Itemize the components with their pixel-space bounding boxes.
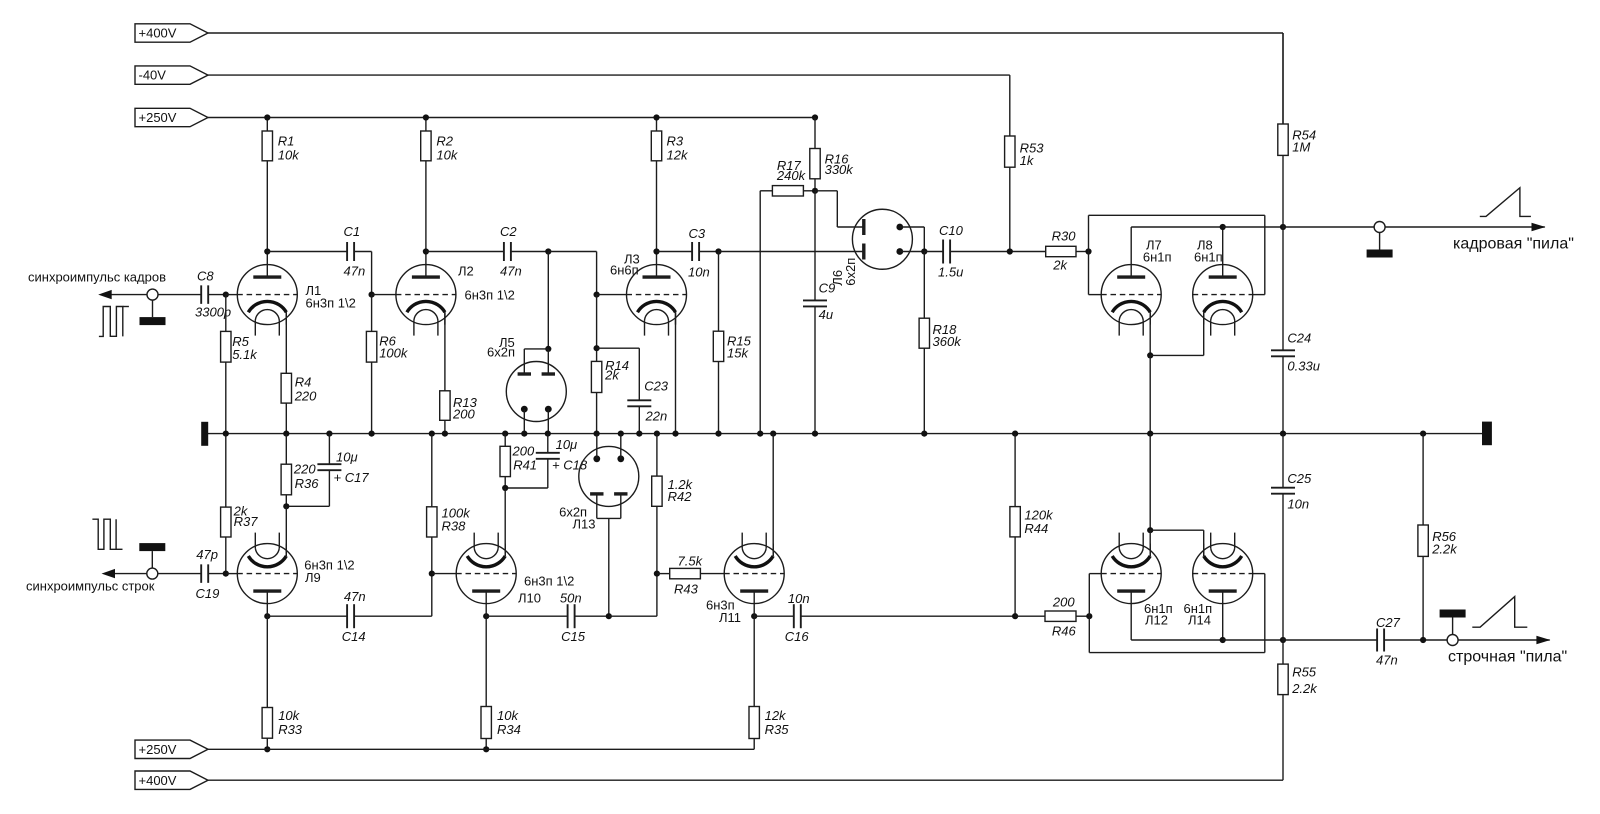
svg-text:Л11: Л11 <box>719 610 741 625</box>
label R1 value <box>278 148 300 163</box>
tube L8 triode <box>1193 265 1253 336</box>
resistor R56 <box>1418 434 1428 640</box>
node L10 grid <box>429 571 435 577</box>
label R33 value <box>278 708 300 723</box>
svg-text:синхроимпульс строк: синхроимпульс строк <box>26 579 155 594</box>
svg-text:12k: 12k <box>667 148 689 163</box>
label R5 value <box>232 347 258 362</box>
node L5 anodes <box>545 346 551 352</box>
label L9 type <box>304 558 354 573</box>
node L14 plate <box>1220 637 1226 643</box>
label R17 <box>777 158 802 173</box>
label C1 value <box>344 264 366 279</box>
capacitor C17 <box>286 434 341 507</box>
wire tap to R43 riser <box>609 574 657 617</box>
wire L8 plate up <box>1222 227 1224 265</box>
svg-text:строчная "пила": строчная "пила" <box>1448 649 1567 666</box>
svg-text:C15: C15 <box>561 629 586 644</box>
label L13 <box>573 516 596 531</box>
svg-text:6н3п 1\2: 6н3п 1\2 <box>465 288 515 303</box>
wire C23 to bus <box>638 406 640 433</box>
resistor R3 <box>651 118 661 265</box>
resistor R38 <box>427 434 437 574</box>
svg-text:синхроимпульс кадров: синхроимпульс кадров <box>28 270 166 285</box>
label R54 value <box>1292 140 1310 155</box>
wire plate L2 to C2 <box>426 251 504 253</box>
label R35 <box>765 722 790 737</box>
label R2 <box>436 134 453 149</box>
node L12 L14 cathodes <box>1147 527 1153 533</box>
svg-text:220: 220 <box>293 461 316 476</box>
waveform frame sawtooth <box>1480 188 1531 217</box>
label R30 value <box>1052 258 1068 273</box>
label C27 value <box>1376 653 1398 668</box>
label R30 <box>1052 229 1077 244</box>
wire junction to L6 upper anode <box>815 191 864 227</box>
ground bus left terminator <box>201 422 208 446</box>
label L2 <box>458 264 474 279</box>
node L3 grid <box>594 292 600 298</box>
svg-text:Л2: Л2 <box>458 264 474 279</box>
node bus junction <box>369 431 375 437</box>
svg-text:R38: R38 <box>442 519 467 534</box>
label R6 <box>379 334 396 349</box>
label C18 value <box>556 437 578 452</box>
label L5 <box>499 335 515 350</box>
node R30 output <box>1085 248 1091 254</box>
svg-text:R36: R36 <box>295 476 320 491</box>
node bus junction <box>545 431 551 437</box>
label C19 <box>196 586 220 601</box>
node bus junction <box>1280 431 1286 437</box>
wire C19 to grid node <box>208 573 226 575</box>
arrow frame output <box>1532 223 1546 231</box>
wire L5 right cathode to bus <box>547 409 549 434</box>
node bus junction <box>636 431 642 437</box>
svg-text:+ C18: + C18 <box>552 458 588 473</box>
wire C3 node to L6 anode <box>719 251 864 253</box>
arrow frame sync input <box>98 290 112 299</box>
capacitor C15 <box>568 604 575 628</box>
svg-text:6н1п: 6н1п <box>1194 250 1223 265</box>
label R1 <box>278 134 295 149</box>
svg-text:6н1п: 6н1п <box>1143 250 1172 265</box>
label L7 type <box>1143 250 1172 265</box>
label R53 value <box>1020 153 1035 168</box>
svg-text:4u: 4u <box>819 307 833 322</box>
svg-text:Л9: Л9 <box>305 570 321 585</box>
svg-text:15k: 15k <box>727 346 749 361</box>
label R43 value <box>678 553 704 568</box>
label L6 <box>830 270 845 286</box>
svg-text:-40V: -40V <box>139 68 167 83</box>
wire L12 L14 cathodes to bus <box>1149 434 1151 531</box>
label C16 <box>785 629 810 644</box>
node bus junction <box>326 431 332 437</box>
resistor R54 <box>1278 33 1288 227</box>
resistor R4 <box>281 312 291 433</box>
label R38 value <box>442 506 472 521</box>
node bus junction <box>283 431 289 437</box>
label C3 value <box>688 265 710 280</box>
ground bus <box>205 433 1487 435</box>
tube L12 triode <box>1101 533 1161 604</box>
label L3 type <box>610 263 639 278</box>
svg-text:R43: R43 <box>674 582 699 597</box>
capacitor C1 <box>347 242 354 261</box>
wire grid jumper top <box>1089 214 1265 216</box>
arrow line output <box>1536 636 1550 644</box>
svg-text:C16: C16 <box>785 629 810 644</box>
wire R30 to grids <box>1076 251 1089 253</box>
node bus junction <box>618 431 624 437</box>
wire C10 to R30 <box>950 251 1046 253</box>
svg-text:R37: R37 <box>234 514 259 529</box>
wire grid to L8 <box>1253 294 1265 296</box>
svg-text:360k: 360k <box>933 334 963 349</box>
terminal line output <box>1440 610 1466 646</box>
svg-text:200: 200 <box>452 406 475 421</box>
node R33 at +250V <box>264 746 270 752</box>
wire L12 plate down <box>1131 604 1223 640</box>
svg-text:2.2k: 2.2k <box>1291 681 1318 696</box>
resistor R42 <box>652 434 662 574</box>
capacitor C3 <box>692 242 699 261</box>
capacitor C14 <box>347 604 354 628</box>
svg-text:1M: 1M <box>1292 140 1310 155</box>
node R46 output <box>1086 613 1092 619</box>
wire R17 left to bus <box>760 191 772 434</box>
label R42 <box>668 489 693 504</box>
node C3 output <box>715 248 721 254</box>
capacitor C8 <box>201 285 208 304</box>
node L1 grid <box>223 292 229 298</box>
label R42 value <box>668 477 694 492</box>
wire L7 plate up <box>1131 227 1223 265</box>
power flag +400V bottom <box>135 771 208 789</box>
node bus junction <box>429 431 435 437</box>
wire +250V rail <box>208 117 815 119</box>
svg-text:6х2п: 6х2п <box>487 345 515 360</box>
label C14 <box>342 629 366 644</box>
wire C3 to node <box>699 251 719 253</box>
svg-text:12k: 12k <box>765 708 787 723</box>
label L13 type <box>559 504 587 519</box>
svg-text:C2: C2 <box>500 224 517 239</box>
label C23 value <box>645 409 668 424</box>
node L1 plate <box>264 248 270 254</box>
node R34 at +250V <box>483 746 489 752</box>
svg-text:R41: R41 <box>513 458 537 473</box>
wire plate L11 to C16 <box>754 615 794 617</box>
wire grid node to L3 <box>597 294 627 296</box>
svg-text:47n: 47n <box>500 264 522 279</box>
svg-text:R42: R42 <box>668 489 693 504</box>
node L9 plate <box>264 613 270 619</box>
svg-text:47p: 47p <box>196 547 218 562</box>
label R53 <box>1020 141 1045 156</box>
label C2 <box>500 224 517 239</box>
label C17 value <box>336 450 358 465</box>
wire grid to L14 <box>1253 573 1265 575</box>
svg-text:Л14: Л14 <box>1188 613 1211 628</box>
label R3 <box>667 134 684 149</box>
node R3 at +250V <box>653 114 659 120</box>
resistor R1 <box>262 118 272 265</box>
label L3 <box>624 252 640 267</box>
capacitor C10 <box>943 240 950 264</box>
label C15 value <box>560 591 582 606</box>
wire input line bottom <box>115 573 201 575</box>
wire L14 grid riser <box>1264 574 1266 653</box>
node bus junction <box>223 431 229 437</box>
svg-text:+400V: +400V <box>139 26 177 41</box>
svg-text:10μ: 10μ <box>556 437 578 452</box>
wire +400V rail <box>208 33 1283 124</box>
label L10 type <box>524 574 574 589</box>
label R46 value <box>1052 595 1075 610</box>
wire C14 to L10 grid <box>354 574 432 617</box>
label C9 <box>819 281 836 296</box>
label R18 value <box>933 334 963 349</box>
wire C1 to L2 grid <box>354 252 372 295</box>
label L1 <box>306 283 322 298</box>
wire plates to line output node <box>1223 639 1283 641</box>
resistor R35 <box>749 604 759 750</box>
arrow line sync input <box>102 569 116 578</box>
resistor R36 <box>281 434 291 507</box>
node L13 anode tap <box>606 613 612 619</box>
node bus junction <box>921 431 927 437</box>
svg-text:R33: R33 <box>278 722 303 737</box>
wire C27 to terminal <box>1384 639 1550 641</box>
label R44 <box>1024 521 1048 536</box>
svg-text:220: 220 <box>294 388 317 403</box>
label C18 <box>552 458 588 473</box>
svg-text:кадровая "пила": кадровая "пила" <box>1453 236 1574 253</box>
label L9 <box>305 570 321 585</box>
node L6 output <box>921 248 927 254</box>
node bus junction <box>654 431 660 437</box>
node L7 L8 cathodes <box>1147 352 1153 358</box>
wire +250V bottom rail <box>208 748 754 750</box>
resistor R55 <box>1278 640 1288 780</box>
label R41 value <box>512 444 535 459</box>
resistor R16 <box>810 118 820 191</box>
svg-text:2k: 2k <box>604 368 620 383</box>
label C27 <box>1376 615 1401 630</box>
label L12 <box>1145 613 1168 628</box>
wire grid node to L10 <box>432 573 456 575</box>
svg-text:10n: 10n <box>788 591 810 606</box>
label sync input frames <box>28 270 166 285</box>
node R14 C23 tap <box>594 345 600 351</box>
resistor R2 <box>421 118 431 265</box>
label R6 value <box>379 346 409 361</box>
resistor R30 <box>1046 246 1076 256</box>
svg-text:200: 200 <box>1052 595 1075 610</box>
svg-text:47n: 47n <box>344 264 366 279</box>
label line output <box>1448 649 1567 666</box>
svg-text:C1: C1 <box>344 224 361 239</box>
wire grid node to L9 <box>226 573 238 575</box>
svg-text:R3: R3 <box>667 134 684 149</box>
wire L14 plate down <box>1222 604 1224 640</box>
wire L6 to C10 <box>924 251 943 253</box>
label C8 <box>197 269 214 284</box>
tube L14 triode <box>1193 533 1253 604</box>
label R38 <box>442 519 467 534</box>
svg-text:47n: 47n <box>344 589 366 604</box>
wire node down to L5 anodes <box>547 252 549 349</box>
label R15 <box>727 334 752 349</box>
label R15 value <box>727 346 749 361</box>
resistor R53 <box>1005 136 1015 252</box>
node L9 grid <box>223 571 229 577</box>
node +250V rail end <box>812 114 818 120</box>
tube L7 triode <box>1101 265 1161 336</box>
power flag -40V <box>135 66 208 84</box>
wire input line <box>111 294 201 296</box>
svg-text:+250V: +250V <box>139 742 177 757</box>
wire grid to L12 <box>1089 573 1101 575</box>
resistor R33 <box>262 604 272 750</box>
label C15 <box>561 629 586 644</box>
svg-text:C3: C3 <box>689 226 706 241</box>
label L8 <box>1197 238 1213 253</box>
node R53 output <box>1007 248 1013 254</box>
label R16 <box>825 152 850 167</box>
wire C2 to node <box>511 251 549 253</box>
capacitor C24 <box>1271 227 1295 434</box>
wire +400V bottom rail <box>208 779 1283 781</box>
node R44 R46 <box>1012 613 1018 619</box>
wire plate L9 to C14 <box>267 615 347 617</box>
node L10 cathode <box>502 485 508 491</box>
svg-text:+400V: +400V <box>139 773 177 788</box>
capacitor C27 <box>1377 629 1384 652</box>
svg-text:C10: C10 <box>939 223 964 238</box>
ground bus right terminator <box>1482 422 1492 446</box>
node bus junction <box>715 431 721 437</box>
label L12 type <box>1144 601 1173 616</box>
node bus junction <box>757 431 763 437</box>
node bus junction <box>1012 431 1018 437</box>
wire plate L1 to C1 <box>267 251 347 253</box>
svg-text:6н6п: 6н6п <box>610 263 639 278</box>
label L7 <box>1146 238 1162 253</box>
label R18 <box>933 322 958 337</box>
node R2 at +250V <box>423 114 429 120</box>
wire L6 lower cathode <box>900 251 925 253</box>
wire L13 cathodes to bus <box>597 434 621 459</box>
wire L5 right anode <box>547 349 549 374</box>
wire cathode jumper <box>1150 312 1204 355</box>
tube L11 triode <box>724 533 784 604</box>
resistor R44 <box>1010 434 1020 617</box>
node R1 at +250V <box>264 114 270 120</box>
label C3 <box>689 226 706 241</box>
power flag +250V bottom <box>135 740 208 758</box>
svg-text:C25: C25 <box>1287 471 1312 486</box>
tube L13 double diode <box>579 446 639 506</box>
wire L12 grid riser <box>1088 574 1090 653</box>
label R16 value <box>825 162 855 177</box>
label R13 <box>453 395 478 410</box>
node bus junction <box>1147 431 1153 437</box>
wire L8 grid riser <box>1264 215 1266 294</box>
node L2 plate <box>423 248 429 254</box>
label R2 value <box>436 148 458 163</box>
node L11 grid R42 R43 <box>654 571 660 577</box>
label L14 type <box>1184 601 1213 616</box>
svg-text:1k: 1k <box>1020 153 1035 168</box>
svg-text:+250V: +250V <box>139 110 177 125</box>
label C17 <box>334 470 370 485</box>
capacitor C9 <box>803 191 827 434</box>
tube L3 triode <box>627 265 687 336</box>
node bus junction <box>442 431 448 437</box>
wire node to L3 grid riser <box>548 252 596 295</box>
capacitor C16 <box>794 604 801 628</box>
label L14 <box>1188 613 1211 628</box>
node bus junction <box>770 431 776 437</box>
label R3 value <box>667 148 689 163</box>
svg-text:R44: R44 <box>1024 521 1048 536</box>
label C14 value <box>344 589 366 604</box>
wire plate L3 to C3 <box>657 251 693 253</box>
label R4 value <box>294 388 317 403</box>
svg-text:C23: C23 <box>644 379 669 394</box>
svg-text:Л12: Л12 <box>1145 613 1168 628</box>
wire L7 cathode <box>1149 312 1151 355</box>
svg-text:5.1k: 5.1k <box>232 347 258 362</box>
resistor R5 <box>221 295 231 434</box>
svg-text:10n: 10n <box>1287 497 1309 512</box>
waveform line sawtooth <box>1472 597 1527 628</box>
resistor R14 <box>591 295 601 434</box>
svg-text:Л13: Л13 <box>573 516 596 531</box>
wire grid node to L1 <box>226 294 238 296</box>
svg-text:10k: 10k <box>278 708 300 723</box>
wire L5 left cathode to bus <box>523 409 525 434</box>
wire L11 cathode to bus <box>772 434 774 556</box>
svg-text:10k: 10k <box>497 708 519 723</box>
tube L10 triode <box>456 533 516 604</box>
label R41 <box>513 458 537 473</box>
svg-text:C14: C14 <box>342 629 366 644</box>
label R36 value <box>293 461 316 476</box>
wire L12 cathode <box>1149 530 1151 556</box>
label C10 <box>939 223 964 238</box>
label L2 type <box>465 288 515 303</box>
label R17 value <box>776 168 807 183</box>
resistor R37 <box>221 434 231 574</box>
capacitor C19 <box>201 564 208 583</box>
label C1 <box>344 224 361 239</box>
node bus junction <box>672 431 678 437</box>
node L10 plate <box>483 613 489 619</box>
wire C15 to L13 node <box>574 615 609 617</box>
tube L2 triode <box>396 265 456 336</box>
label R55 <box>1292 665 1317 680</box>
wire frame output line <box>1283 226 1545 228</box>
svg-text:100k: 100k <box>379 346 409 361</box>
svg-text:R30: R30 <box>1052 229 1077 244</box>
resistor R17 <box>772 186 803 196</box>
svg-text:6х2п: 6х2п <box>843 258 858 286</box>
label R4 <box>295 375 312 390</box>
